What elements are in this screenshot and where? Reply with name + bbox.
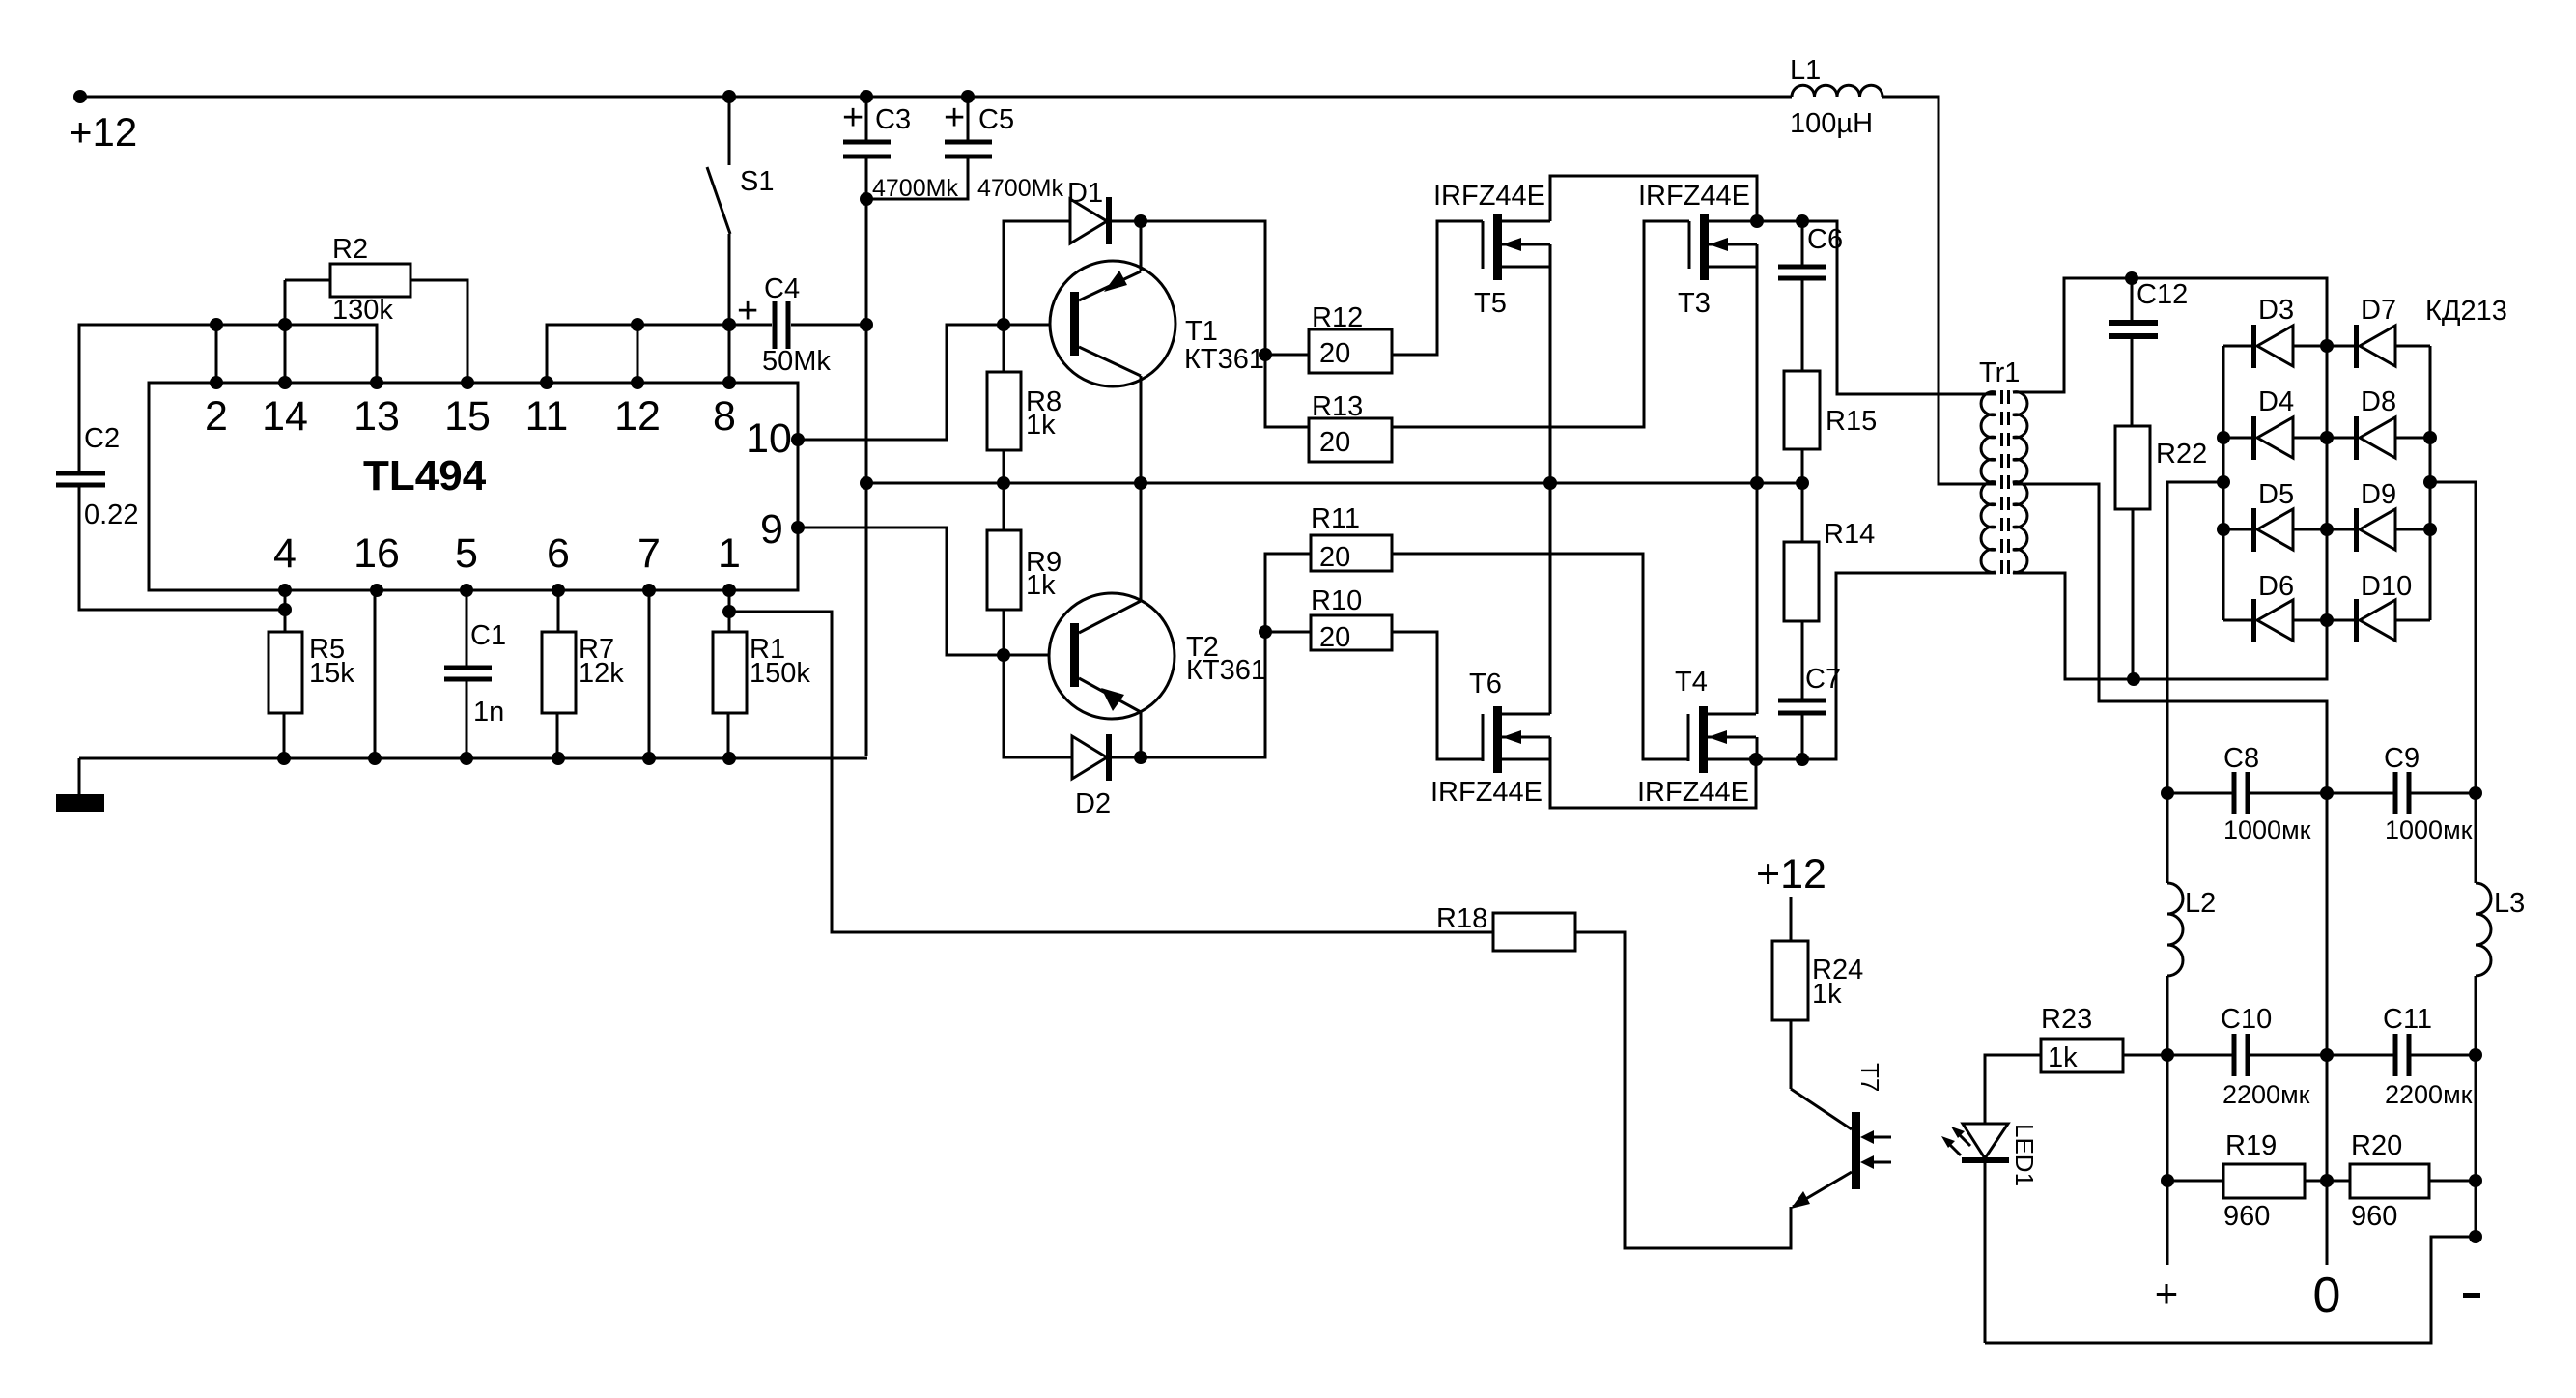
svg-text:7: 7 xyxy=(637,530,661,577)
svg-text:Т7: Т7 xyxy=(1855,1063,1884,1092)
svg-text:15: 15 xyxy=(444,393,491,440)
svg-text:D5: D5 xyxy=(2258,479,2294,510)
svg-text:20: 20 xyxy=(1319,427,1350,458)
svg-text:C4: C4 xyxy=(764,273,800,304)
svg-text:20: 20 xyxy=(1319,338,1350,369)
svg-text:D3: D3 xyxy=(2258,295,2294,326)
svg-text:R14: R14 xyxy=(1824,519,1875,550)
svg-text:IRFZ44E: IRFZ44E xyxy=(1638,181,1750,212)
svg-text:1000мк: 1000мк xyxy=(2223,815,2311,844)
svg-text:C9: C9 xyxy=(2384,743,2420,774)
svg-text:T1: T1 xyxy=(1185,316,1218,347)
svg-text:R15: R15 xyxy=(1826,406,1877,437)
svg-text:+12: +12 xyxy=(1756,851,1826,898)
svg-text:1000мк: 1000мк xyxy=(2385,815,2473,844)
svg-text:R10: R10 xyxy=(1311,585,1362,616)
svg-text:4: 4 xyxy=(273,530,297,577)
svg-text:D10: D10 xyxy=(2361,571,2412,602)
svg-text:12: 12 xyxy=(614,393,661,440)
svg-text:C2: C2 xyxy=(84,423,120,454)
svg-text:5: 5 xyxy=(455,530,478,577)
svg-text:0: 0 xyxy=(2313,1268,2341,1324)
svg-text:20: 20 xyxy=(1319,542,1350,573)
svg-text:R20: R20 xyxy=(2351,1130,2402,1161)
svg-text:14: 14 xyxy=(262,393,308,440)
svg-text:IRFZ44E: IRFZ44E xyxy=(1430,777,1543,808)
svg-text:1n: 1n xyxy=(473,697,504,728)
svg-text:C3: C3 xyxy=(875,104,911,135)
svg-text:C1: C1 xyxy=(470,620,506,651)
svg-text:13: 13 xyxy=(354,393,400,440)
svg-text:0.22: 0.22 xyxy=(84,499,138,530)
svg-text:20: 20 xyxy=(1319,622,1350,653)
svg-text:S1: S1 xyxy=(740,166,774,197)
svg-text:130k: 130k xyxy=(332,295,393,326)
svg-text:960: 960 xyxy=(2223,1201,2270,1232)
svg-text:2200мк: 2200мк xyxy=(2385,1080,2473,1109)
svg-text:R19: R19 xyxy=(2225,1130,2277,1161)
svg-text:+: + xyxy=(842,98,863,138)
svg-text:100µH: 100µH xyxy=(1790,108,1873,139)
svg-text:4700Mk: 4700Mk xyxy=(872,175,958,202)
svg-text:1k: 1k xyxy=(1026,570,1056,601)
svg-text:C6: C6 xyxy=(1807,224,1843,255)
svg-text:C12: C12 xyxy=(2137,279,2188,310)
svg-text:R13: R13 xyxy=(1312,391,1363,422)
svg-text:1k: 1k xyxy=(1026,410,1056,441)
svg-text:T3: T3 xyxy=(1678,288,1711,319)
svg-text:T6: T6 xyxy=(1469,669,1502,699)
svg-text:+: + xyxy=(2155,1270,2179,1316)
svg-text:C11: C11 xyxy=(2383,1004,2432,1035)
svg-text:TL494: TL494 xyxy=(363,452,487,499)
svg-text:T5: T5 xyxy=(1474,288,1507,319)
svg-text:150k: 150k xyxy=(750,658,810,689)
svg-text:12k: 12k xyxy=(579,658,624,689)
svg-text:L2: L2 xyxy=(2185,888,2216,919)
svg-text:8: 8 xyxy=(713,393,736,440)
svg-text:C5: C5 xyxy=(978,104,1014,135)
svg-text:960: 960 xyxy=(2351,1201,2397,1232)
svg-text:R18: R18 xyxy=(1436,903,1487,934)
svg-text:1: 1 xyxy=(718,530,741,577)
svg-text:D1: D1 xyxy=(1067,178,1103,209)
svg-text:Tr1: Tr1 xyxy=(1979,357,2020,388)
svg-text:11: 11 xyxy=(525,393,569,440)
svg-text:T4: T4 xyxy=(1675,667,1708,698)
svg-text:R22: R22 xyxy=(2156,439,2207,470)
svg-text:+: + xyxy=(944,98,965,138)
svg-text:4700Mk: 4700Mk xyxy=(977,175,1063,202)
svg-text:1k: 1k xyxy=(1812,979,1842,1010)
svg-text:C8: C8 xyxy=(2223,743,2259,774)
svg-text:6: 6 xyxy=(547,530,570,577)
svg-text:D8: D8 xyxy=(2361,386,2396,417)
svg-text:+12: +12 xyxy=(69,109,137,155)
svg-text:15k: 15k xyxy=(309,658,354,689)
svg-text:КД213: КД213 xyxy=(2425,296,2507,327)
svg-text:10: 10 xyxy=(746,415,792,462)
svg-text:16: 16 xyxy=(354,530,400,577)
svg-text:1k: 1k xyxy=(2048,1042,2078,1073)
svg-text:D2: D2 xyxy=(1075,788,1111,819)
svg-text:2200мк: 2200мк xyxy=(2222,1080,2310,1109)
svg-text:R2: R2 xyxy=(332,234,368,265)
svg-text:КТ361: КТ361 xyxy=(1186,655,1266,686)
svg-text:IRFZ44E: IRFZ44E xyxy=(1637,777,1749,808)
svg-text:R12: R12 xyxy=(1312,302,1363,333)
svg-text:9: 9 xyxy=(760,506,783,553)
svg-text:IRFZ44E: IRFZ44E xyxy=(1433,181,1545,212)
svg-text:R23: R23 xyxy=(2041,1004,2092,1035)
svg-text:КТ361: КТ361 xyxy=(1184,344,1264,375)
svg-text:D6: D6 xyxy=(2258,571,2294,602)
svg-text:D9: D9 xyxy=(2361,479,2396,510)
svg-text:C7: C7 xyxy=(1805,664,1841,695)
svg-text:2: 2 xyxy=(205,393,228,440)
svg-text:C10: C10 xyxy=(2221,1004,2272,1035)
svg-text:L3: L3 xyxy=(2494,888,2525,919)
svg-text:R11: R11 xyxy=(1311,503,1360,534)
svg-text:LED1: LED1 xyxy=(2010,1124,2039,1186)
svg-text:L1: L1 xyxy=(1790,55,1821,86)
svg-text:D7: D7 xyxy=(2361,295,2396,326)
svg-text:50Mk: 50Mk xyxy=(762,346,831,377)
svg-text:D4: D4 xyxy=(2258,386,2294,417)
